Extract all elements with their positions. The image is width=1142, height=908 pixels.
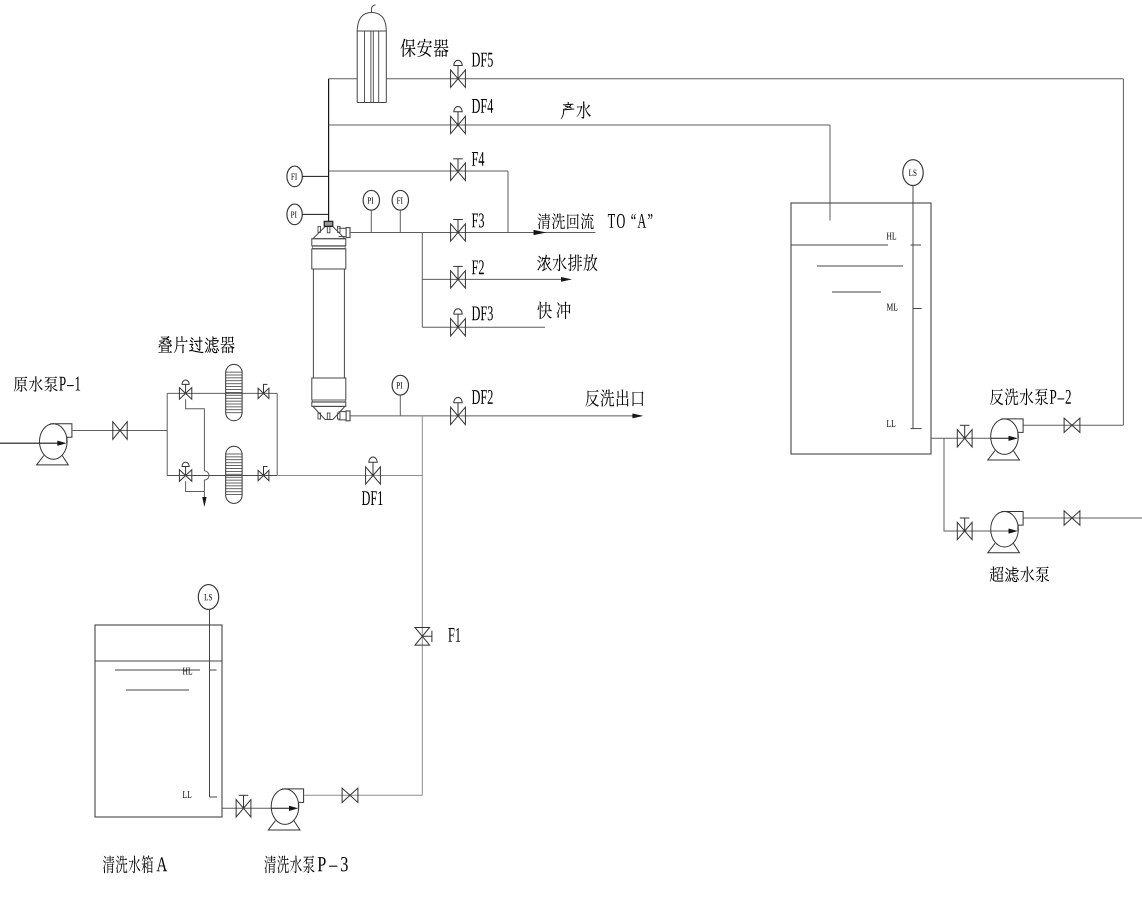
valve filter top outlet: [258, 388, 269, 398]
label 原水泵P-1: [14, 376, 80, 392]
tank level line mid: [817, 265, 903, 267]
label DF5: [472, 53, 493, 67]
module top outlet port: [339, 228, 347, 236]
instrument PI module top: [363, 190, 379, 210]
pump P-2 inlet arrow: [1009, 436, 1018, 441]
tank level line 2: [126, 689, 189, 691]
pump P-2 flow arrow: [1009, 436, 1018, 441]
drain pipe jump over branch: [204, 471, 209, 497]
wire branch drop: [944, 438, 956, 531]
wire filter drain top valve: [186, 399, 205, 471]
label LL cleaning tank: [183, 791, 192, 798]
label HL: [887, 233, 896, 240]
label ML: [887, 304, 898, 311]
vessel 保安器 (cartridge filter): [357, 31, 386, 103]
pump P-1 inlet flow arrow: [58, 441, 66, 446]
wire PI stub: [302, 213, 328, 215]
wire filter right riser: [276, 393, 278, 475]
module top cap: [313, 227, 345, 239]
wire DF4 product header: [329, 124, 830, 126]
tank level line 1: [115, 669, 200, 671]
valve P-2 discharge: [1064, 418, 1080, 432]
valve DF4 (diaphragm): [451, 116, 466, 133]
instrument FI module top: [392, 190, 408, 210]
valve filter bottom inlet (diaphragm): [179, 470, 191, 482]
wire PI stem: [399, 395, 401, 416]
pump P-3 flow arrow: [289, 806, 298, 811]
label DF3: [472, 306, 493, 320]
disc filter element bottom: [226, 446, 242, 503]
UF membrane module: [312, 239, 346, 246]
tank lid line: [95, 660, 222, 662]
wire DF1 line (filter outlet to riser): [277, 475, 422, 477]
wire DF5 header: [329, 78, 358, 80]
tank cleaning water tank A shell: [95, 625, 222, 817]
label DF2: [472, 390, 493, 404]
F3 flow arrow: [534, 230, 547, 235]
label 浓水排放: [537, 254, 597, 271]
label 叠片过滤器: [158, 336, 234, 353]
wire backwash riser (right): [1122, 79, 1124, 426]
wire raw water inlet line: [0, 442, 59, 444]
wire cleaning tank level gauge: [209, 609, 211, 797]
label 产水: [561, 101, 591, 119]
vessel internals hatching: [365, 31, 379, 103]
wire product dip tube: [829, 125, 831, 221]
wire FI stem: [399, 210, 401, 232]
pump P-2 base: [988, 451, 1020, 460]
valve pump P-1 discharge: [113, 422, 127, 440]
wire DF3 line: [422, 326, 545, 328]
valve F4: [451, 163, 466, 180]
label 清洗回流 TO A: [538, 213, 653, 229]
wire F4 drop to F3 line: [507, 171, 509, 233]
pump P-1 flow arrow: [57, 441, 66, 446]
F2 flow arrow: [561, 277, 572, 282]
wire filter inlet riser: [166, 393, 168, 475]
valve UF pump suction: [957, 522, 972, 539]
wire UF pump discharge: [1024, 517, 1142, 519]
pump P-2 casing: [991, 419, 1019, 455]
wire F3 header: [350, 232, 595, 234]
instrument PI feed: [287, 204, 302, 225]
wire F2 line: [422, 278, 561, 280]
label 超滤水泵: [990, 566, 1050, 582]
module bottom cap: [313, 406, 345, 419]
valve DF5 (diaphragm): [451, 70, 466, 87]
label 反洗出口: [585, 389, 643, 406]
instrument FI feed: [287, 166, 302, 187]
label DF1: [362, 491, 383, 505]
label HL cleaning tank: [183, 668, 192, 675]
wire filter drain bottom valve: [186, 481, 205, 491]
pump P-3 inlet arrow: [289, 806, 298, 811]
valve UF pump discharge: [1064, 511, 1080, 525]
valve DF1 (diaphragm): [366, 467, 381, 484]
valve DF3 (diaphragm): [451, 319, 466, 336]
label F4: [472, 152, 484, 166]
disc filter element top: [226, 364, 242, 420]
wire DF2 line: [350, 415, 634, 417]
wire main feed riser: [328, 79, 330, 222]
valve filter bottom outlet: [258, 470, 269, 480]
label F3: [472, 213, 484, 227]
pump UF flow arrow: [1009, 529, 1018, 534]
valve P-3 discharge: [342, 788, 358, 802]
label F1: [448, 628, 460, 642]
label LL: [887, 420, 896, 427]
label DF4: [472, 99, 493, 113]
wire branch riser F3-DF3: [421, 233, 423, 328]
valve F3: [451, 224, 466, 241]
pump P-1 casing: [40, 424, 68, 460]
module top feed nub: [324, 221, 333, 226]
wire level gauge: [912, 186, 914, 429]
wire filter top branch: [167, 392, 277, 394]
tank level line low: [832, 291, 881, 293]
label 快冲: [537, 301, 570, 319]
label 清洗水泵P-3: [264, 855, 347, 873]
wire filter bottom branch: [167, 475, 277, 477]
pump UF base: [988, 543, 1020, 552]
valve cleaning tank outlet: [236, 800, 251, 817]
pump UF casing: [991, 512, 1019, 548]
pump UF inlet arrow: [1009, 529, 1018, 534]
instrument LS cleaning tank: [198, 585, 218, 610]
wire tank outlet line: [931, 437, 991, 439]
wire P-2 discharge: [1024, 424, 1124, 426]
tank UF water tank shell: [791, 203, 931, 454]
wire lower riser: [421, 416, 423, 795]
pump P-3 base: [268, 821, 300, 830]
wire FI stub: [302, 175, 328, 177]
label 清洗水箱A: [103, 855, 167, 873]
label F2: [472, 260, 484, 274]
pump P-1 base: [37, 456, 69, 465]
valve tank outlet (P-2 suction): [957, 430, 972, 447]
label 反洗水泵P-2: [990, 388, 1071, 405]
filter drain arrow: [202, 497, 206, 507]
instrument PI module bottom: [392, 375, 408, 395]
wire P-3 discharge: [304, 794, 422, 796]
tank level line HL: [791, 244, 888, 246]
wire PI stem: [370, 210, 372, 232]
module bottom outlet port: [339, 412, 347, 420]
instrument LS tank: [903, 160, 923, 186]
valve F1: [415, 628, 430, 646]
valve F2: [451, 271, 466, 288]
valve filter top inlet (diaphragm): [179, 388, 191, 400]
DF2 flow arrow: [632, 414, 643, 419]
wire cleaning tank outlet: [222, 807, 272, 809]
label 保安器: [401, 39, 449, 57]
wire pump P-1 discharge line: [73, 430, 168, 432]
valve DF2 (diaphragm): [451, 407, 466, 424]
wire F4 line: [329, 170, 508, 172]
pump P-3 casing: [271, 789, 299, 825]
